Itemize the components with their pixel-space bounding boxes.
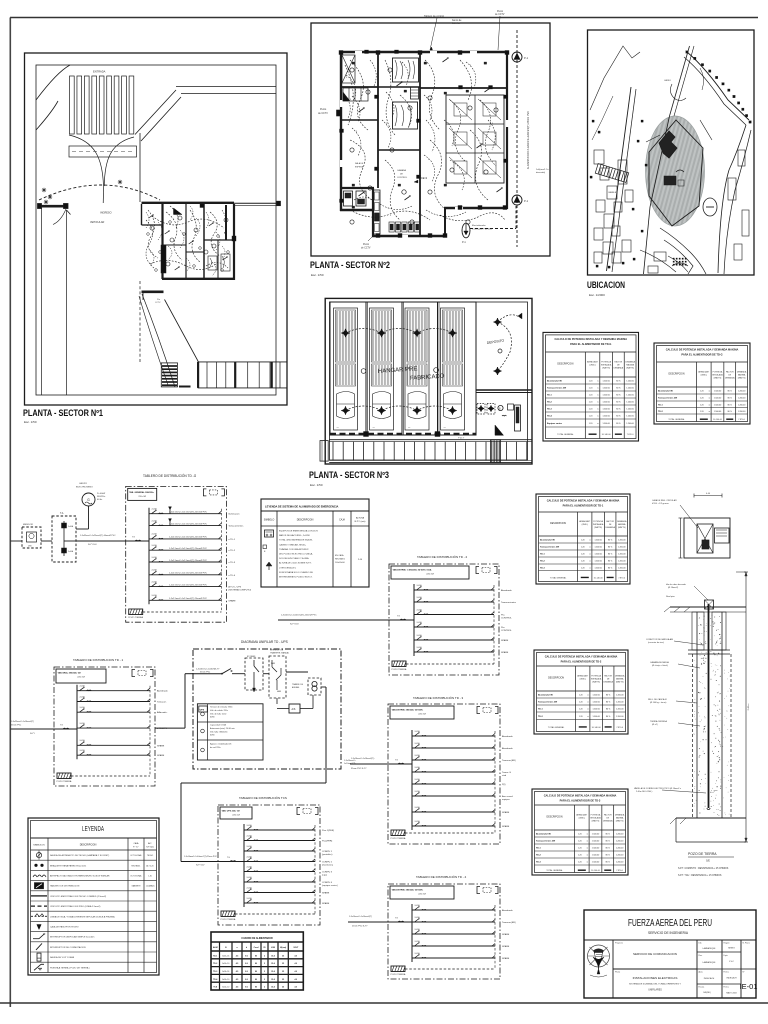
svg-text:4.5: 4.5 — [236, 978, 239, 981]
svg-text:(WATTS): (WATTS) — [592, 820, 600, 823]
svg-text:1-3x10mm2+1x10mm2(T)-25mm PVC: 1-3x10mm2+1x10mm2(T)-25mm PVC — [184, 856, 217, 858]
pozo notes — [678, 867, 729, 877]
svg-text:Esc. 1/50: Esc. 1/50 — [310, 483, 323, 487]
svg-text:COMPU 1: COMPU 1 — [322, 851, 333, 853]
svg-text:A/Acondic.: A/Acondic. — [157, 711, 168, 714]
svg-text:DEMANDA: DEMANDA — [614, 367, 624, 370]
svg-text:DESCRIPCION: DESCRIPCION — [557, 364, 573, 366]
svg-text:P= 40kW: P= 40kW — [97, 493, 105, 495]
pozo detail left labels — [634, 584, 708, 793]
svg-text:RELL. DE CASCAJO: RELL. DE CASCAJO — [648, 698, 667, 701]
svg-text:CAJA DE PASO/POR TECHO: CAJA DE PASO/POR TECHO — [50, 926, 79, 929]
svg-text:Volt. de salida: 220v: Volt. de salida: 220v — [210, 709, 228, 712]
svg-text:SPARE: SPARE — [502, 811, 510, 814]
svg-text:1.200.00: 1.200.00 — [626, 388, 633, 390]
svg-text:a TD-3: a TD-3 — [228, 562, 235, 564]
svg-text:1.500.00: 1.500.00 — [594, 554, 601, 556]
svg-text:35mm PVC N-YY: 35mm PVC N-YY — [351, 768, 367, 770]
svg-text:(conector de vias): (conector de vias) — [648, 641, 664, 644]
svg-text:1.20: 1.20 — [589, 388, 593, 390]
svg-text:PARA EL ALIMENTADOR DE TD-G: PARA EL ALIMENTADOR DE TD-G — [570, 342, 611, 346]
sector3 deposito — [476, 302, 532, 435]
svg-text:INDECACH: INDECACH — [727, 977, 738, 980]
svg-text:2x20A: 2x20A — [152, 544, 158, 547]
svg-text:PARA EL ALIMENTADOR DE TD-2: PARA EL ALIMENTADOR DE TD-2 — [561, 660, 602, 664]
svg-text:8.6: 8.6 — [245, 987, 248, 989]
svg-text:PUESTA A TIERRA ( POZO DE TIE: PUESTA A TIERRA ( POZO DE TIERRA ) — [50, 966, 90, 969]
sector1 road edges — [42, 87, 276, 396]
svg-text:3x60A: 3x60A — [68, 525, 74, 528]
svg-text:LAMBAYEQUE: LAMBAYEQUE — [703, 947, 717, 950]
svg-text:F.° G.°: F.° G.° — [133, 847, 139, 849]
svg-text:TAB.GRAL 380/220v 3Ø: TAB.GRAL 380/220v 3Ø — [58, 672, 82, 675]
svg-text:(UNID.): (UNID.) — [582, 524, 589, 526]
svg-text:INSTALADA: INSTALADA — [593, 523, 604, 526]
svg-text:2x20A: 2x20A — [247, 845, 253, 848]
svg-text:2x20A: 2x20A — [417, 596, 423, 599]
svg-text:Region: Region — [724, 943, 730, 945]
sector2 console dark row — [389, 222, 420, 232]
svg-text:1.200.00: 1.200.00 — [626, 423, 633, 425]
svg-text:TAB.DISTRIB. 380/220v 3Ø 60Hz: TAB.DISTRIB. 380/220v 3Ø 60Hz — [392, 889, 424, 892]
svg-text:OCTOGONAL: OCTOGONAL — [130, 875, 141, 878]
svg-text:1.20: 1.20 — [589, 423, 593, 425]
svg-text:Punto: Punto — [363, 243, 370, 246]
cuadro de alimentadores table — [211, 932, 303, 990]
medidor box — [11, 524, 53, 548]
svg-text:DESCRIPCION: DESCRIPCION — [550, 523, 566, 525]
svg-text:1-2x2.5mm2+1x2.5mm2(T)-20mmØ P: 1-2x2.5mm2+1x2.5mm2(T)-20mmØ PVC — [169, 512, 208, 514]
svg-text:S.P.T. TGU : RESIS: S.P.T. TGU : RESISTENCIA ≤ 15 OHMIOS — [678, 874, 722, 877]
svg-text:ALTURA DE 2.40m SOBRE N.P.T.: ALTURA DE 2.40m SOBRE N.P.T. — [279, 562, 312, 565]
svg-text:PLANTA - SECTOR Nº2: PLANTA - SECTOR Nº2 — [310, 260, 390, 270]
svg-text:MEDIDOR: MEDIDOR — [23, 524, 33, 526]
svg-text:1.20: 1.20 — [578, 834, 582, 836]
title block header — [628, 917, 712, 935]
svg-text:1-2x2.5mm2+1x2.5mm2(T)-20mmØ P: 1-2x2.5mm2+1x2.5mm2(T)-20mmØ PVC — [169, 573, 208, 575]
svg-text:1.200.00: 1.200.00 — [618, 540, 625, 542]
svg-text:Capacidad: 6 kVA: Capacidad: 6 kVA — [210, 724, 227, 727]
svg-text:SPARE: SPARE — [502, 933, 510, 936]
svg-text:1-2x2.5mm2+1x2.5mm2(T)-20mmØ P: 1-2x2.5mm2+1x2.5mm2(T)-20mmØ PVC — [169, 598, 208, 600]
svg-text:TABLERO DE DISTRIBUCIÓN TD -G: TABLERO DE DISTRIBUCIÓN TD -G — [143, 473, 197, 478]
svg-text:Tomacorr(ER): Tomacorr(ER) — [502, 759, 516, 762]
svg-text:2x20A: 2x20A — [152, 580, 158, 583]
tablero TD-3 title — [413, 695, 464, 700]
leyenda table — [28, 818, 159, 975]
svg-text:1.500.00: 1.500.00 — [602, 395, 609, 397]
svg-text:SEINO: SEINO — [728, 948, 735, 950]
svg-text:1.200.00: 1.200.00 — [616, 702, 623, 704]
svg-text:A TCS - UPS: A TCS - UPS — [228, 586, 241, 589]
ubicacion title — [587, 280, 625, 297]
svg-text:80 %: 80 % — [606, 834, 611, 836]
svg-text:TAB.DISTRIB. 1 380/220v 3Ø 60H: TAB.DISTRIB. 1 380/220v 3Ø 60Hz 10kA — [393, 569, 432, 572]
svg-text:2x20A: 2x20A — [417, 584, 423, 587]
svg-text:2x20A: 2x20A — [415, 790, 421, 793]
svg-text:MAXIMA: MAXIMA — [616, 817, 624, 820]
sector1 bottom-right roads — [139, 294, 199, 387]
svg-text:Autonomia (min): 20-30 min: Autonomia (min): 20-30 min — [210, 727, 235, 730]
svg-text:10.140.00: 10.140.00 — [713, 419, 723, 421]
svg-text:1.500.00: 1.500.00 — [714, 411, 721, 413]
tablero TD-G title — [143, 473, 197, 478]
sector2 storage room X — [342, 55, 355, 83]
svg-text:IE-01: IE-01 — [740, 982, 758, 991]
sector3 lower right room — [477, 404, 521, 436]
svg-text:1-3x16mm2+1x16mm2(T)-: 1-3x16mm2+1x16mm2(T)- — [351, 758, 375, 760]
tablero TCS — [218, 805, 338, 925]
svg-text:1.500.00: 1.500.00 — [602, 409, 609, 411]
svg-text:2x20A: 2x20A — [417, 608, 423, 611]
pozo detail ground level — [664, 596, 746, 612]
svg-text:GABINETE: GABINETE — [131, 885, 141, 888]
svg-text:25: 25 — [282, 979, 284, 981]
sector2 console room grid — [446, 95, 504, 183]
svg-text:220v 1Ø: 220v 1Ø — [232, 815, 240, 817]
svg-text:POZO TIERRA: POZO TIERRA — [221, 918, 236, 921]
svg-text:8.6: 8.6 — [245, 955, 248, 957]
svg-text:POTENCIA: POTENCIA — [593, 520, 603, 523]
svg-text:▫▫▫: ▫▫▫ — [444, 427, 447, 429]
svg-text:FACTOR: FACTOR — [604, 813, 612, 816]
svg-text:SPARE: SPARE — [228, 599, 236, 602]
svg-text:80: 80 — [255, 971, 257, 973]
svg-text:Alumbrado kW: Alumbrado kW — [658, 390, 673, 393]
svg-text:Rev.: Rev. — [699, 955, 703, 957]
sector3 hangar text — [361, 366, 445, 382]
svg-text:1.200.00: 1.200.00 — [616, 862, 623, 864]
svg-text:35.4: 35.4 — [271, 970, 275, 973]
svg-text:CONECTOR DE VARILLA A/B: CONECTOR DE VARILLA A/B — [646, 638, 674, 641]
svg-text:AREA/CANT: AREA/CANT — [577, 674, 589, 677]
svg-text:(SISTEMA COMPUTO): (SISTEMA COMPUTO) — [228, 588, 251, 591]
UPS output label — [344, 760, 357, 765]
svg-text:1.20: 1.20 — [581, 554, 585, 556]
pozo detail top labels — [652, 499, 698, 528]
svg-text:INSTALADA: INSTALADA — [601, 364, 612, 367]
svg-text:DEL FLUIDO ELECTRICO, UBICA-: DEL FLUIDO ELECTRICO, UBICA- — [279, 553, 313, 556]
svg-text:DESCRIPCION: DESCRIPCION — [297, 519, 314, 522]
svg-text:1.500.00: 1.500.00 — [714, 404, 721, 406]
svg-text:PARA EL ALIMENTADOR DE TD-G: PARA EL ALIMENTADOR DE TD-G — [681, 353, 722, 357]
svg-text:3x25+16: 3x25+16 — [222, 955, 229, 957]
svg-text:1.500.00: 1.500.00 — [592, 709, 599, 711]
svg-text:ALIMENTADOR 3-1x6mm2+1x6mm2(T): ALIMENTADOR 3-1x6mm2+1x6mm2(T)-25mm PVC — [527, 111, 530, 169]
svg-text:Alumbrado: Alumbrado — [502, 909, 513, 912]
svg-text:25mm PVC N-YY: 25mm PVC N-YY — [352, 926, 368, 928]
svg-text:25: 25 — [282, 987, 284, 989]
svg-text:UBICACION: UBICACION — [587, 280, 625, 290]
svg-text:DEMANDA: DEMANDA — [615, 813, 625, 816]
svg-text:1.200.00: 1.200.00 — [626, 409, 633, 411]
svg-text:2: 2 — [264, 971, 265, 973]
svg-text:SPARE: SPARE — [502, 945, 510, 948]
svg-text:Alumbrado: Alumbrado — [502, 735, 513, 738]
svg-text:CAMARA: CAMARA — [397, 169, 407, 172]
svg-text:baterias: baterias — [452, 22, 461, 25]
svg-text:Proyecto: Proyecto — [615, 942, 624, 945]
svg-text:1.500.00: 1.500.00 — [594, 540, 601, 542]
svg-text:FUNCIONARA SOLO CUANDO SE: FUNCIONARA SOLO CUANDO SE — [279, 571, 313, 574]
svg-text:AISLAM.: AISLAM. — [292, 686, 300, 689]
svg-text:(WATTS): (WATTS) — [738, 377, 746, 380]
svg-text:80 %: 80 % — [728, 411, 733, 413]
svg-text:Tablero de control: Tablero de control — [424, 15, 444, 18]
svg-text:220v 3Ø: 220v 3Ø — [77, 677, 85, 679]
svg-text:1.200.00: 1.200.00 — [738, 404, 745, 406]
svg-text:AREA/CANT: AREA/CANT — [587, 360, 599, 363]
svg-text:SERVICIO DE COMUNICACION: SERVICIO DE COMUNICACION — [633, 952, 677, 956]
svg-text:MAYO 2003: MAYO 2003 — [726, 992, 736, 995]
feeder TD-4 — [348, 916, 388, 928]
svg-text:Tomacorrientes: Tomacorrientes — [501, 601, 517, 604]
svg-text:INTERRUMPA EL FLUIDO ELECT.: INTERRUMPA EL FLUIDO ELECT. — [279, 576, 313, 579]
svg-text:ARTEFACTO ADOSADO EN PARED/MU: ARTEFACTO ADOSADO EN PARED/MURO 3x36 W S… — [50, 875, 110, 878]
svg-text:T.A.: T.A. — [60, 512, 64, 515]
sector2 circuit curves — [344, 57, 505, 224]
svg-text:1.20: 1.20 — [589, 409, 593, 411]
diagrama unifilar TD-UPS — [181, 649, 341, 862]
svg-text:POZO TIERRA: POZO TIERRA — [57, 780, 72, 783]
svg-text:TIVARAN CON UNA INTERUP.: TIVARAN CON UNA INTERUP. — [279, 548, 309, 551]
svg-text:de CCTV: de CCTV — [361, 248, 371, 250]
svg-text:1.20: 1.20 — [581, 561, 585, 563]
svg-text:80 %: 80 % — [608, 540, 613, 542]
svg-text:80 %: 80 % — [616, 381, 621, 383]
svg-text:1.200.00: 1.200.00 — [616, 695, 623, 697]
svg-text:Tomacorrientes kW: Tomacorrientes kW — [538, 701, 557, 704]
svg-text:(WATTS): (WATTS) — [594, 526, 602, 529]
svg-text:80 %: 80 % — [608, 554, 613, 556]
svg-text:OCTOGONAL: OCTOGONAL — [130, 854, 141, 857]
svg-text:Dib.: Dib. — [699, 943, 703, 945]
svg-text:1.500.00: 1.500.00 — [714, 398, 721, 400]
svg-text:TRANSF. DE: TRANSF. DE — [292, 683, 304, 686]
svg-text:80: 80 — [255, 979, 257, 981]
svg-text:CE=2: CE=2 — [421, 177, 428, 180]
svg-text:TABLERO DE DISTRIBUCIÓN TD - 4: TABLERO DE DISTRIBUCIÓN TD - 4 — [416, 874, 467, 879]
planta sector 1 box — [25, 53, 288, 405]
svg-text:Iluminacion: Iluminacion — [228, 514, 240, 516]
svg-text:1.200.00: 1.200.00 — [616, 841, 623, 843]
svg-text:SISTEMA DE ILUMINACION, TOMACO: SISTEMA DE ILUMINACION, TOMACORRIENTES Y — [629, 983, 681, 986]
svg-text:2x20A: 2x20A — [415, 820, 421, 823]
svg-text:4.5: 4.5 — [236, 962, 239, 965]
svg-text:CUADRO DE ALIMENTADOR: CUADRO DE ALIMENTADOR — [241, 937, 273, 940]
svg-text:2x20A: 2x20A — [152, 556, 158, 559]
title block grid — [613, 940, 756, 998]
svg-text:( VER DETALLE ): ( VER DETALLE ) — [279, 566, 296, 569]
svg-text:1.500.00: 1.500.00 — [602, 381, 609, 383]
sector2 feeder dashes right — [512, 30, 549, 247]
svg-text:1.500.00: 1.500.00 — [594, 561, 601, 563]
svg-text:de CCTV: de CCTV — [318, 112, 328, 115]
svg-text:TOTAL 40W. BATERIA DE NIQUEL: TOTAL 40W. BATERIA DE NIQUEL — [279, 539, 314, 542]
pozo detail title — [688, 852, 734, 863]
svg-text:Pto.: Pto. — [501, 626, 505, 629]
svg-text:TABLERO DE DISTRIBUCIÓN TCS: TABLERO DE DISTRIBUCIÓN TCS — [239, 795, 287, 800]
svg-text:P-1: P-1 — [524, 56, 529, 60]
svg-text:kWh: kWh — [28, 546, 32, 548]
svg-text:2x20A: 2x20A — [415, 754, 421, 757]
sector2 wall niches column — [374, 190, 381, 234]
ubicacion gray zone ellipse — [625, 112, 724, 230]
svg-text:35.4: 35.4 — [271, 954, 275, 957]
svg-text:Alumbrado: Alumbrado — [501, 589, 512, 592]
svg-text:2x20A: 2x20A — [152, 533, 158, 536]
svg-text:Tomacorrientes kW: Tomacorrientes kW — [536, 840, 555, 843]
svg-text:TG: TG — [397, 616, 400, 618]
svg-text:SPARE: SPARE — [157, 754, 165, 757]
svg-text:desnudo): desnudo) — [536, 172, 545, 174]
sector2 outer walls — [339, 51, 509, 239]
svg-text:1-2x2.5mm2+1x2.5mm2(T)-20mmØ P: 1-2x2.5mm2+1x2.5mm2(T)-20mmØ PVC — [169, 584, 208, 586]
svg-text:1.500.00: 1.500.00 — [592, 716, 599, 718]
svg-text:4.5: 4.5 — [236, 986, 239, 989]
svg-text:1.20: 1.20 — [589, 395, 593, 397]
svg-text:2.40 m: 2.40 m — [748, 703, 750, 710]
svg-text:ELECTROGENO: ELECTROGENO — [76, 487, 93, 489]
svg-text:4.0: 4.0 — [295, 954, 298, 957]
svg-text:MAXIMA: MAXIMA — [626, 364, 634, 367]
svg-text:(portatiles): (portatiles) — [322, 853, 333, 856]
svg-text:TG: TG — [132, 537, 135, 539]
svg-text:1.500.00: 1.500.00 — [592, 695, 599, 697]
calc table TD-G left — [543, 332, 639, 441]
svg-text:CCTV: CCTV — [155, 302, 161, 304]
svg-text:1.200.00: 1.200.00 — [738, 398, 745, 400]
calc table TD-G right — [654, 343, 750, 424]
svg-text:7.870.0: 7.870.0 — [616, 870, 624, 872]
svg-text:80 %: 80 % — [728, 391, 733, 393]
svg-text:(WATTS): (WATTS) — [714, 377, 722, 380]
sector1 entrada text — [93, 70, 106, 74]
leyenda sistema alumbrado emergencia table — [261, 499, 369, 587]
svg-text:1.20: 1.20 — [579, 716, 583, 718]
svg-text:1.500.00: 1.500.00 — [714, 391, 721, 393]
svg-text:N.P.T. (mts): N.P.T. (mts) — [355, 520, 366, 523]
svg-text:2: 2 — [264, 987, 265, 989]
svg-text:Plano: Plano — [615, 972, 621, 974]
svg-text:2x20A: 2x20A — [152, 519, 158, 522]
sector2 room labels — [355, 162, 428, 194]
svg-text:4.5: 4.5 — [236, 954, 239, 957]
sector2 title — [310, 260, 390, 277]
feeder TCS label — [181, 856, 218, 867]
svg-text:1.20: 1.20 — [589, 402, 593, 404]
svg-text:35.4: 35.4 — [271, 962, 275, 965]
svg-text:1.40: 1.40 — [148, 876, 152, 878]
sector1 ingreso vehicular text — [90, 212, 112, 225]
svg-text:Esc. 1/50: Esc. 1/50 — [311, 273, 324, 277]
planta sector 3 box — [325, 298, 532, 464]
svg-text:1.20: 1.20 — [578, 855, 582, 857]
svg-text:2x20A: 2x20A — [415, 940, 421, 943]
svg-text:220v 3Ø: 220v 3Ø — [426, 574, 434, 576]
sector1 gate — [38, 204, 71, 225]
svg-text:1-3x25mm2+1x16mm2(T): 1-3x25mm2+1x16mm2(T) — [11, 721, 34, 723]
svg-text:2x20A: 2x20A — [247, 865, 253, 868]
svg-text:1.500.00: 1.500.00 — [602, 402, 609, 404]
svg-text:POTENCIA: POTENCIA — [591, 813, 601, 816]
svg-text:1.200.00: 1.200.00 — [626, 402, 633, 404]
svg-text:TG: TG — [227, 857, 230, 859]
svg-text:4.0: 4.0 — [295, 978, 298, 981]
svg-text:TIERRA CERNIDA: TIERRA CERNIDA — [650, 720, 667, 723]
svg-text:TD-3: TD-3 — [213, 971, 217, 973]
tablero de transferencia TA — [52, 512, 76, 562]
svg-text:Escala: Escala — [699, 987, 706, 989]
svg-text:10.140.00: 10.140.00 — [594, 577, 604, 579]
svg-text:UNIFILARES: UNIFILARES — [648, 989, 662, 992]
svg-text:Esc. 1/2000: Esc. 1/2000 — [589, 293, 605, 297]
svg-text:COMPU 2: COMPU 2 — [322, 862, 333, 864]
svg-text:CANIBLES: CANIBLES — [608, 191, 618, 194]
svg-text:7.870.0: 7.870.0 — [618, 577, 626, 579]
svg-text:DOS SEGUN PLANO Y A UNA: DOS SEGUN PLANO Y A UNA — [279, 557, 309, 560]
svg-text:TG: TG — [395, 760, 398, 762]
svg-text:FACTOR: FACTOR — [604, 674, 612, 677]
svg-text:CALCULO DE POTENCIA INSTALADA: CALCULO DE POTENCIA INSTALADA Y DEMANDA … — [547, 499, 620, 503]
svg-text:2x20A: 2x20A — [415, 766, 421, 769]
svg-text:SERVICIO DE INGENIERIA: SERVICIO DE INGENIERIA — [648, 930, 688, 935]
svg-text:220v 3Ø: 220v 3Ø — [418, 894, 426, 896]
svg-text:DEMANDA: DEMANDA — [737, 370, 747, 373]
feeder TD-1 — [11, 721, 55, 735]
svg-text:2x20A: 2x20A — [80, 749, 86, 752]
svg-text:INTERRUPTOR UNIPOLAR SIMPLE h: INTERRUPTOR UNIPOLAR SIMPLE h=1.40m — [50, 936, 95, 939]
calc table TD-1 — [536, 494, 630, 584]
svg-text:Alumbrado: Alumbrado — [502, 747, 513, 750]
svg-text:1.200.00: 1.200.00 — [626, 381, 633, 383]
sector1 trees — [42, 180, 122, 204]
svg-text:2x20A: 2x20A — [247, 897, 253, 900]
svg-text:GRUPO: GRUPO — [79, 483, 87, 485]
svg-text:7.870.0: 7.870.0 — [627, 434, 635, 436]
svg-text:Alumbrado kW: Alumbrado kW — [536, 833, 551, 836]
svg-text:2x20A: 2x20A — [415, 916, 421, 919]
svg-text:1-3x10mm2+1x10mm2(T)-25mmØ PVC: 1-3x10mm2+1x10mm2(T)-25mmØ PVC — [281, 615, 317, 617]
ubicacion left blocks — [590, 120, 647, 268]
svg-text:2x20A: 2x20A — [415, 730, 421, 733]
svg-text:CAJA: CAJA — [134, 842, 140, 845]
svg-text:Electrobomba: Electrobomba — [472, 224, 486, 227]
svg-text:CAMARA DE MEDIA: CAMARA DE MEDIA — [650, 661, 669, 664]
svg-text:1.20: 1.20 — [700, 411, 704, 413]
svg-text:sumergible P=1.5kW: sumergible P=1.5kW — [472, 228, 493, 231]
sector3 bottom cell strip — [320, 438, 532, 463]
pozo detail right dimension — [736, 572, 750, 842]
sector2 lower-left desks — [344, 191, 367, 206]
svg-text:220v 3Ø: 220v 3Ø — [138, 496, 146, 498]
svg-text:3x10+10: 3x10+10 — [222, 963, 229, 965]
svg-text:PARA EL ALIMENTADOR DE TD-3: PARA EL ALIMENTADOR DE TD-3 — [560, 799, 601, 803]
svg-text:Alumbrado: Alumbrado — [157, 690, 168, 693]
svg-text:1.20: 1.20 — [579, 695, 583, 697]
ubicacion roads — [590, 46, 751, 274]
svg-text:BRAQUETE PARA PARED Eh=2.20m: BRAQUETE PARA PARED Eh=2.20m — [50, 864, 86, 867]
sector1 entry curves — [36, 65, 134, 203]
svg-text:CALCULO DE POTENCIA INSTALADA: CALCULO DE POTENCIA INSTALADA Y DEMANDA … — [666, 348, 739, 352]
svg-text:2x20A: 2x20A — [417, 646, 423, 649]
svg-text:Tomacorr(ER): Tomacorr(ER) — [502, 921, 516, 924]
svg-text:AREA/CANT: AREA/CANT — [579, 520, 591, 523]
svg-text:POTENCIA: POTENCIA — [713, 370, 723, 373]
svg-text:Ø 3/4 + 1/2 grueso: Ø 3/4 + 1/2 grueso — [652, 503, 670, 505]
svg-text:35.4: 35.4 — [271, 978, 275, 981]
svg-text:Pto.: Pto. — [501, 614, 505, 617]
